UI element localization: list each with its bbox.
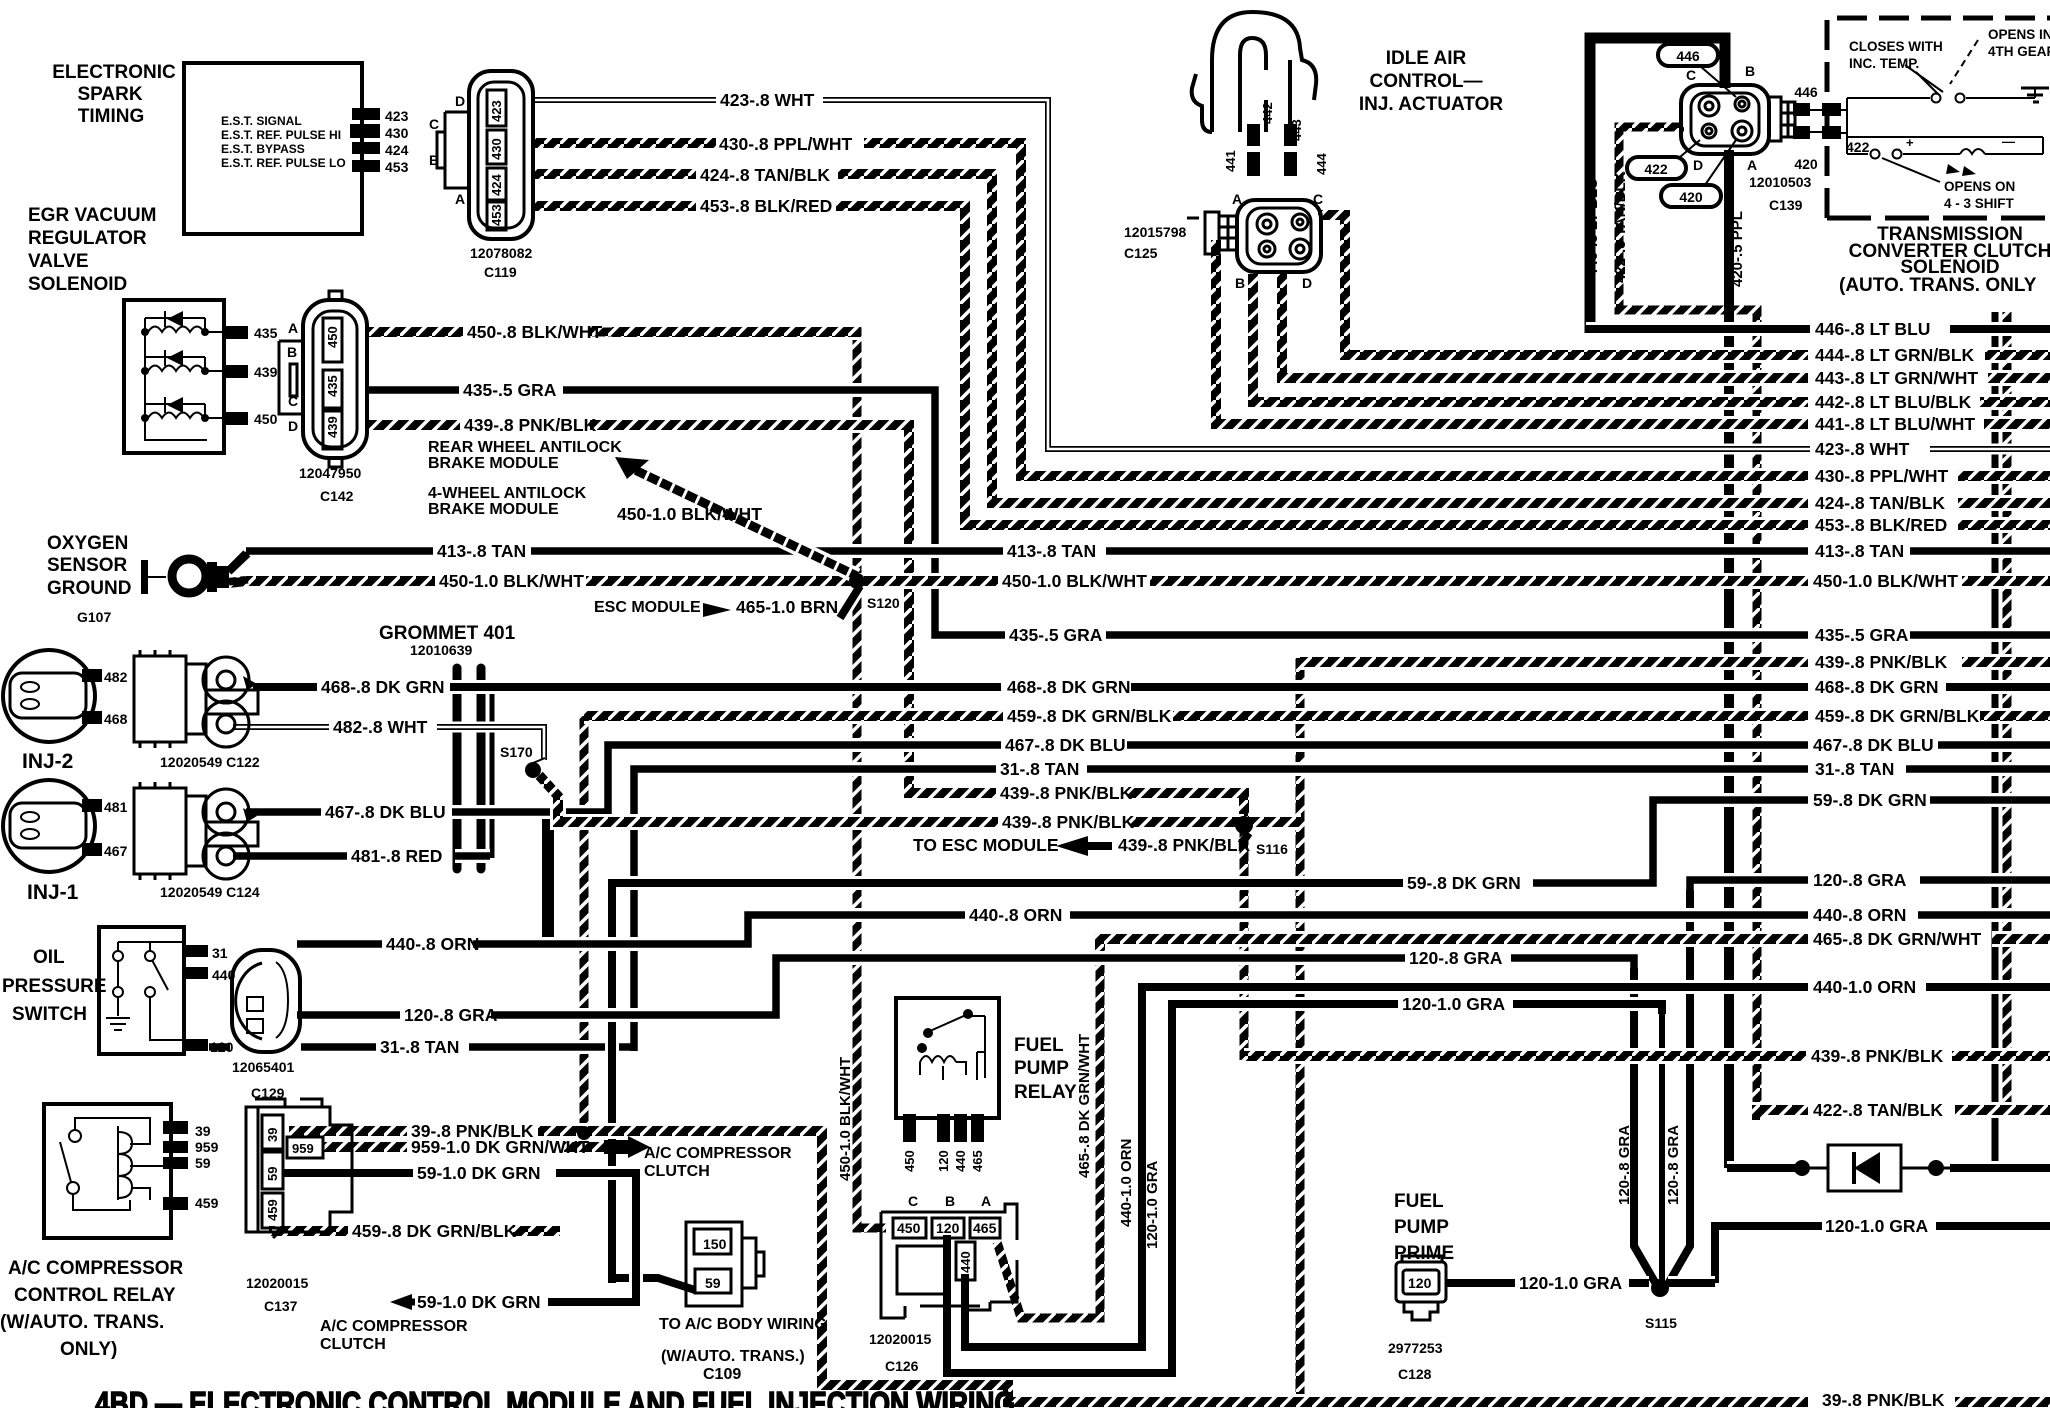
svg-text:453-.8 BLK/RED: 453-.8 BLK/RED bbox=[1815, 515, 1947, 535]
svg-text:(W/AUTO. TRANS.: (W/AUTO. TRANS. bbox=[0, 1312, 164, 1333]
svg-text:S170: S170 bbox=[500, 744, 533, 760]
svg-text:120-1.0 GRA: 120-1.0 GRA bbox=[1144, 1160, 1161, 1249]
svg-text:467-.8 DK BLU: 467-.8 DK BLU bbox=[1005, 735, 1126, 755]
svg-text:450: 450 bbox=[897, 1220, 921, 1236]
svg-text:S116: S116 bbox=[1256, 841, 1288, 857]
svg-text:4-WHEEL ANTILOCK: 4-WHEEL ANTILOCK bbox=[428, 485, 587, 502]
svg-text:442-.8 LT BLU/BLK: 442-.8 LT BLU/BLK bbox=[1815, 392, 1972, 412]
svg-text:423: 423 bbox=[489, 100, 504, 122]
svg-text:446: 446 bbox=[1794, 84, 1818, 100]
svg-text:120-1.0 GRA: 120-1.0 GRA bbox=[1519, 1273, 1622, 1293]
svg-text:424-.8 TAN/BLK: 424-.8 TAN/BLK bbox=[1815, 493, 1945, 513]
svg-text:39-.8 PNK/BLK: 39-.8 PNK/BLK bbox=[1822, 1390, 1945, 1408]
svg-text:INC. TEMP.: INC. TEMP. bbox=[1849, 56, 1919, 71]
svg-text:435: 435 bbox=[325, 375, 340, 397]
svg-text:120-.8 GRA: 120-.8 GRA bbox=[1665, 1125, 1682, 1205]
svg-text:31-.8 TAN: 31-.8 TAN bbox=[1815, 759, 1894, 779]
svg-text:SENSOR: SENSOR bbox=[47, 555, 128, 576]
svg-text:VALVE: VALVE bbox=[28, 251, 89, 272]
svg-text:120: 120 bbox=[936, 1150, 951, 1172]
svg-text:120-.8 GRA: 120-.8 GRA bbox=[1616, 1125, 1633, 1205]
svg-text:440: 440 bbox=[953, 1150, 968, 1172]
svg-text:59-1.0 DK GRN: 59-1.0 DK GRN bbox=[417, 1292, 541, 1312]
svg-text:C129: C129 bbox=[251, 1085, 285, 1101]
svg-text:439: 439 bbox=[254, 364, 278, 380]
svg-text:SPARK: SPARK bbox=[77, 84, 142, 105]
svg-text:413-.8 TAN: 413-.8 TAN bbox=[1815, 541, 1904, 561]
svg-text:FUEL: FUEL bbox=[1394, 1191, 1444, 1212]
svg-text:423-.8 WHT: 423-.8 WHT bbox=[720, 90, 815, 110]
svg-text:C: C bbox=[1313, 191, 1323, 207]
svg-text:C126: C126 bbox=[885, 1358, 919, 1374]
svg-text:(AUTO. TRANS. ONLY: (AUTO. TRANS. ONLY bbox=[1839, 275, 2037, 296]
svg-text:12020015: 12020015 bbox=[869, 1331, 932, 1347]
svg-text:120-.8 GRA: 120-.8 GRA bbox=[1409, 948, 1503, 968]
svg-text:439-.8 PNK/BLK: 439-.8 PNK/BLK bbox=[1118, 835, 1251, 855]
svg-text:12015798: 12015798 bbox=[1124, 224, 1187, 240]
svg-text:C139: C139 bbox=[1769, 197, 1803, 213]
svg-text:453: 453 bbox=[489, 204, 504, 226]
svg-text:12010639: 12010639 bbox=[410, 642, 473, 658]
svg-text:959: 959 bbox=[195, 1139, 219, 1155]
svg-text:459-.8 DK GRN/BLK: 459-.8 DK GRN/BLK bbox=[352, 1221, 517, 1241]
svg-text:423-.8 WHT: 423-.8 WHT bbox=[1815, 439, 1910, 459]
svg-text:B: B bbox=[945, 1193, 955, 1209]
svg-text:SOLENOID: SOLENOID bbox=[28, 274, 127, 295]
svg-text:A: A bbox=[981, 1193, 991, 1209]
svg-text:430: 430 bbox=[489, 138, 504, 160]
svg-text:120: 120 bbox=[1408, 1275, 1432, 1291]
svg-text:120: 120 bbox=[210, 1039, 234, 1055]
svg-text:TIMING: TIMING bbox=[78, 106, 145, 127]
svg-text:CONTROL—: CONTROL— bbox=[1370, 71, 1483, 92]
svg-text:59-.8 DK GRN: 59-.8 DK GRN bbox=[1813, 790, 1927, 810]
svg-text:439-.8 PNK/BLK: 439-.8 PNK/BLK bbox=[1815, 652, 1948, 672]
svg-text:443-.8 LT GRN/WHT: 443-.8 LT GRN/WHT bbox=[1815, 368, 1978, 388]
svg-text:D: D bbox=[455, 93, 465, 109]
svg-text:PUMP: PUMP bbox=[1014, 1058, 1069, 1079]
svg-text:4TH GEAR: 4TH GEAR bbox=[1988, 44, 2050, 59]
svg-text:120-1.0 GRA: 120-1.0 GRA bbox=[1825, 1216, 1928, 1236]
svg-text:12010503: 12010503 bbox=[1749, 174, 1812, 190]
svg-text:453-.8 BLK/RED: 453-.8 BLK/RED bbox=[700, 196, 832, 216]
svg-text:420: 420 bbox=[1679, 189, 1703, 205]
svg-text:A/C COMPRESSOR: A/C COMPRESSOR bbox=[320, 1318, 468, 1335]
svg-text:ESC MODULE: ESC MODULE bbox=[594, 599, 701, 616]
svg-text:422: 422 bbox=[1644, 161, 1668, 177]
svg-text:467-.8 DK BLU: 467-.8 DK BLU bbox=[1813, 735, 1934, 755]
svg-text:E.S.T. REF. PULSE LO: E.S.T. REF. PULSE LO bbox=[221, 156, 346, 170]
svg-text:OIL: OIL bbox=[33, 947, 65, 968]
svg-text:REGULATOR: REGULATOR bbox=[28, 228, 147, 249]
svg-text:440-.8 ORN: 440-.8 ORN bbox=[1813, 905, 1906, 925]
svg-text:430-.8 PPL/WHT: 430-.8 PPL/WHT bbox=[1815, 466, 1949, 486]
svg-text:39: 39 bbox=[265, 1128, 280, 1142]
svg-text:D: D bbox=[288, 418, 298, 434]
svg-text:120-.8 GRA: 120-.8 GRA bbox=[404, 1005, 498, 1025]
svg-text:450-1.0 BLK/WHT: 450-1.0 BLK/WHT bbox=[617, 504, 762, 524]
svg-text:B: B bbox=[1745, 63, 1755, 79]
svg-text:959: 959 bbox=[292, 1141, 314, 1156]
svg-text:459-.8 DK GRN/BLK: 459-.8 DK GRN/BLK bbox=[1007, 706, 1172, 726]
svg-text:440: 440 bbox=[958, 1251, 973, 1273]
svg-text:482: 482 bbox=[104, 669, 128, 685]
svg-text:413-.8 TAN: 413-.8 TAN bbox=[1007, 541, 1096, 561]
svg-text:OXYGEN: OXYGEN bbox=[47, 533, 128, 554]
svg-text:CLOSES WITH: CLOSES WITH bbox=[1849, 39, 1943, 54]
svg-text:C128: C128 bbox=[1398, 1366, 1432, 1382]
svg-text:E.S.T. BYPASS: E.S.T. BYPASS bbox=[221, 142, 305, 156]
svg-text:12047950: 12047950 bbox=[299, 465, 362, 481]
svg-text:A/C COMPRESSOR: A/C COMPRESSOR bbox=[644, 1145, 792, 1162]
svg-text:465-.8 DK GRN/WHT: 465-.8 DK GRN/WHT bbox=[1813, 929, 1982, 949]
svg-text:+: + bbox=[1906, 135, 1914, 150]
svg-text:446-.8 LT BLU: 446-.8 LT BLU bbox=[1584, 178, 1601, 277]
svg-text:453: 453 bbox=[385, 159, 409, 175]
svg-text:12020015: 12020015 bbox=[246, 1275, 309, 1291]
svg-text:C125: C125 bbox=[1124, 245, 1158, 261]
svg-text:465-.8 DK GRN/WHT: 465-.8 DK GRN/WHT bbox=[1076, 1034, 1093, 1178]
svg-text:A/C COMPRESSOR: A/C COMPRESSOR bbox=[8, 1258, 184, 1279]
svg-text:A: A bbox=[455, 191, 465, 207]
svg-text:C: C bbox=[908, 1193, 918, 1209]
svg-text:424: 424 bbox=[385, 142, 409, 158]
svg-text:435: 435 bbox=[254, 325, 278, 341]
svg-text:465: 465 bbox=[973, 1220, 997, 1236]
svg-text:959-1.0 DK GRN/WHT: 959-1.0 DK GRN/WHT bbox=[411, 1137, 589, 1157]
svg-text:RELAY: RELAY bbox=[1014, 1082, 1077, 1103]
svg-text:443: 443 bbox=[1289, 119, 1304, 141]
svg-text:59: 59 bbox=[195, 1155, 211, 1171]
svg-text:150: 150 bbox=[703, 1236, 727, 1252]
svg-text:REAR WHEEL ANTILOCK: REAR WHEEL ANTILOCK bbox=[428, 439, 622, 456]
svg-text:481: 481 bbox=[104, 799, 128, 815]
svg-text:BRAKE MODULE: BRAKE MODULE bbox=[428, 501, 559, 518]
svg-text:423: 423 bbox=[385, 108, 409, 124]
svg-text:SWITCH: SWITCH bbox=[12, 1004, 87, 1025]
svg-text:420-.5 PPL: 420-.5 PPL bbox=[1729, 211, 1746, 287]
svg-text:S115: S115 bbox=[1645, 1315, 1677, 1331]
svg-text:442: 442 bbox=[1260, 102, 1275, 124]
svg-text:C: C bbox=[1686, 67, 1696, 83]
svg-text:422-.8 TAN/BLK: 422-.8 TAN/BLK bbox=[1612, 171, 1629, 283]
svg-text:420: 420 bbox=[1794, 156, 1818, 172]
svg-text:468: 468 bbox=[104, 711, 128, 727]
svg-text:435-.5 GRA: 435-.5 GRA bbox=[463, 380, 557, 400]
svg-text:G107: G107 bbox=[77, 609, 111, 625]
svg-text:C: C bbox=[429, 116, 439, 132]
svg-text:59-.8 DK GRN: 59-.8 DK GRN bbox=[1407, 873, 1521, 893]
svg-text:31-.8 TAN: 31-.8 TAN bbox=[1000, 759, 1079, 779]
svg-text:59: 59 bbox=[265, 1167, 280, 1181]
svg-text:TO ESC MODULE: TO ESC MODULE bbox=[913, 835, 1059, 855]
svg-text:450-1.0 BLK/WHT: 450-1.0 BLK/WHT bbox=[1813, 571, 1958, 591]
svg-text:482-.8 WHT: 482-.8 WHT bbox=[333, 717, 428, 737]
svg-text:439: 439 bbox=[325, 416, 340, 438]
svg-text:TO A/C BODY WIRING: TO A/C BODY WIRING bbox=[659, 1316, 827, 1333]
svg-text:422: 422 bbox=[1846, 139, 1870, 155]
svg-text:446: 446 bbox=[1676, 48, 1700, 64]
svg-text:C109: C109 bbox=[703, 1366, 741, 1383]
svg-text:4BD — ELECTRONIC CONTROL MODUL: 4BD — ELECTRONIC CONTROL MODULE AND FUEL… bbox=[95, 1385, 1015, 1408]
svg-text:PUMP: PUMP bbox=[1394, 1217, 1449, 1238]
svg-text:ONLY): ONLY) bbox=[60, 1339, 117, 1360]
svg-text:440-1.0 ORN: 440-1.0 ORN bbox=[1118, 1139, 1135, 1227]
svg-text:OPENS IN: OPENS IN bbox=[1988, 27, 2050, 42]
svg-text:ELECTRONIC: ELECTRONIC bbox=[52, 62, 176, 83]
svg-text:422-.8 TAN/BLK: 422-.8 TAN/BLK bbox=[1813, 1100, 1943, 1120]
svg-text:435-.5 GRA: 435-.5 GRA bbox=[1815, 625, 1909, 645]
svg-text:S120: S120 bbox=[867, 595, 900, 611]
svg-text:12020549 C124: 12020549 C124 bbox=[160, 884, 260, 900]
svg-text:PRESSURE: PRESSURE bbox=[2, 976, 107, 997]
svg-text:439-.8 PNK/BLK: 439-.8 PNK/BLK bbox=[464, 415, 597, 435]
svg-text:424-.8 TAN/BLK: 424-.8 TAN/BLK bbox=[700, 165, 830, 185]
svg-text:440-.8 ORN: 440-.8 ORN bbox=[969, 905, 1062, 925]
svg-text:C: C bbox=[288, 393, 298, 409]
svg-text:59: 59 bbox=[705, 1275, 721, 1291]
svg-text:4 - 3 SHIFT: 4 - 3 SHIFT bbox=[1944, 196, 2015, 211]
svg-text:444: 444 bbox=[1314, 153, 1329, 175]
svg-text:446-.8 LT BLU: 446-.8 LT BLU bbox=[1815, 319, 1930, 339]
svg-text:465-1.0 BRN: 465-1.0 BRN bbox=[736, 597, 838, 617]
svg-text:GROMMET 401: GROMMET 401 bbox=[379, 623, 516, 644]
svg-text:413-.8 TAN: 413-.8 TAN bbox=[437, 541, 526, 561]
svg-text:BRAKE MODULE: BRAKE MODULE bbox=[428, 455, 559, 472]
svg-text:120-1.0 GRA: 120-1.0 GRA bbox=[1402, 994, 1505, 1014]
svg-text:459: 459 bbox=[265, 1199, 280, 1221]
svg-text:CLUTCH: CLUTCH bbox=[644, 1163, 710, 1180]
svg-text:430-.8 PPL/WHT: 430-.8 PPL/WHT bbox=[719, 134, 853, 154]
svg-text:459: 459 bbox=[195, 1195, 219, 1211]
svg-text:424: 424 bbox=[489, 174, 504, 196]
svg-text:450: 450 bbox=[254, 411, 278, 427]
svg-text:INJ-2: INJ-2 bbox=[22, 750, 73, 773]
svg-text:E.S.T. REF. PULSE HI: E.S.T. REF. PULSE HI bbox=[221, 128, 341, 142]
svg-text:441-.8 LT BLU/WHT: 441-.8 LT BLU/WHT bbox=[1815, 414, 1975, 434]
svg-text:CLUTCH: CLUTCH bbox=[320, 1336, 386, 1353]
svg-text:450: 450 bbox=[325, 326, 340, 348]
svg-text:481-.8 RED: 481-.8 RED bbox=[351, 846, 442, 866]
svg-text:467: 467 bbox=[104, 843, 128, 859]
svg-text:439-.8 PNK/BLK: 439-.8 PNK/BLK bbox=[1811, 1046, 1944, 1066]
svg-text:467-.8 DK BLU: 467-.8 DK BLU bbox=[325, 802, 446, 822]
svg-text:B: B bbox=[287, 344, 297, 360]
svg-text:430: 430 bbox=[385, 125, 409, 141]
svg-text:450: 450 bbox=[902, 1150, 917, 1172]
svg-text:440-.8 ORN: 440-.8 ORN bbox=[386, 934, 479, 954]
svg-text:(W/AUTO. TRANS.): (W/AUTO. TRANS.) bbox=[661, 1348, 805, 1365]
svg-text:PRIME: PRIME bbox=[1394, 1243, 1454, 1264]
svg-text:2977253: 2977253 bbox=[1388, 1340, 1443, 1356]
svg-text:A: A bbox=[288, 320, 298, 336]
svg-text:E.S.T. SIGNAL: E.S.T. SIGNAL bbox=[221, 114, 302, 128]
svg-text:450-.8 BLK/WHT: 450-.8 BLK/WHT bbox=[467, 322, 602, 342]
svg-text:EGR VACUUM: EGR VACUUM bbox=[28, 205, 156, 226]
svg-text:468-.8 DK GRN: 468-.8 DK GRN bbox=[1815, 677, 1939, 697]
svg-text:120-.8 GRA: 120-.8 GRA bbox=[1813, 870, 1907, 890]
svg-text:—: — bbox=[2002, 134, 2015, 149]
svg-text:450-1.0 BLK/WHT: 450-1.0 BLK/WHT bbox=[439, 571, 584, 591]
svg-text:12065401: 12065401 bbox=[232, 1059, 295, 1075]
svg-text:C119: C119 bbox=[484, 264, 517, 280]
svg-text:441: 441 bbox=[1223, 150, 1238, 172]
svg-text:468-.8 DK GRN: 468-.8 DK GRN bbox=[321, 677, 445, 697]
svg-text:444-.8 LT GRN/BLK: 444-.8 LT GRN/BLK bbox=[1815, 345, 1975, 365]
svg-text:440-1.0 ORN: 440-1.0 ORN bbox=[1813, 977, 1916, 997]
svg-text:CONTROL RELAY: CONTROL RELAY bbox=[14, 1285, 176, 1306]
svg-text:B: B bbox=[429, 152, 439, 168]
svg-text:IDLE AIR: IDLE AIR bbox=[1386, 48, 1467, 69]
svg-text:C142: C142 bbox=[320, 488, 354, 504]
svg-text:459-.8 DK GRN/BLK: 459-.8 DK GRN/BLK bbox=[1815, 706, 1980, 726]
svg-text:59-1.0 DK GRN: 59-1.0 DK GRN bbox=[417, 1163, 541, 1183]
svg-text:12020549 C122: 12020549 C122 bbox=[160, 754, 260, 770]
svg-text:GROUND: GROUND bbox=[47, 578, 131, 599]
svg-text:OPENS ON: OPENS ON bbox=[1944, 179, 2015, 194]
svg-text:D: D bbox=[1693, 157, 1703, 173]
svg-text:INJ. ACTUATOR: INJ. ACTUATOR bbox=[1359, 94, 1504, 115]
svg-text:FUEL: FUEL bbox=[1014, 1035, 1064, 1056]
svg-text:12078082: 12078082 bbox=[470, 245, 533, 261]
svg-text:120: 120 bbox=[936, 1220, 960, 1236]
svg-text:468-.8 DK GRN: 468-.8 DK GRN bbox=[1007, 677, 1131, 697]
svg-text:INJ-1: INJ-1 bbox=[27, 881, 79, 904]
svg-text:31-.8 TAN: 31-.8 TAN bbox=[380, 1037, 459, 1057]
svg-text:435-.5 GRA: 435-.5 GRA bbox=[1009, 625, 1103, 645]
svg-text:39: 39 bbox=[195, 1123, 211, 1139]
svg-text:31: 31 bbox=[212, 945, 228, 961]
svg-text:D: D bbox=[1302, 275, 1312, 291]
svg-text:A: A bbox=[1747, 157, 1757, 173]
svg-text:440: 440 bbox=[212, 967, 236, 983]
svg-text:A: A bbox=[1232, 191, 1242, 207]
svg-text:C137: C137 bbox=[264, 1298, 298, 1314]
svg-text:450-1.0 BLK/WHT: 450-1.0 BLK/WHT bbox=[837, 1057, 854, 1181]
svg-text:439-.8 PNK/BLK: 439-.8 PNK/BLK bbox=[1002, 812, 1135, 832]
svg-text:B: B bbox=[1235, 275, 1245, 291]
svg-text:450-1.0 BLK/WHT: 450-1.0 BLK/WHT bbox=[1002, 571, 1147, 591]
svg-text:465: 465 bbox=[970, 1150, 985, 1172]
svg-text:439-.8 PNK/BLK: 439-.8 PNK/BLK bbox=[1000, 783, 1133, 803]
